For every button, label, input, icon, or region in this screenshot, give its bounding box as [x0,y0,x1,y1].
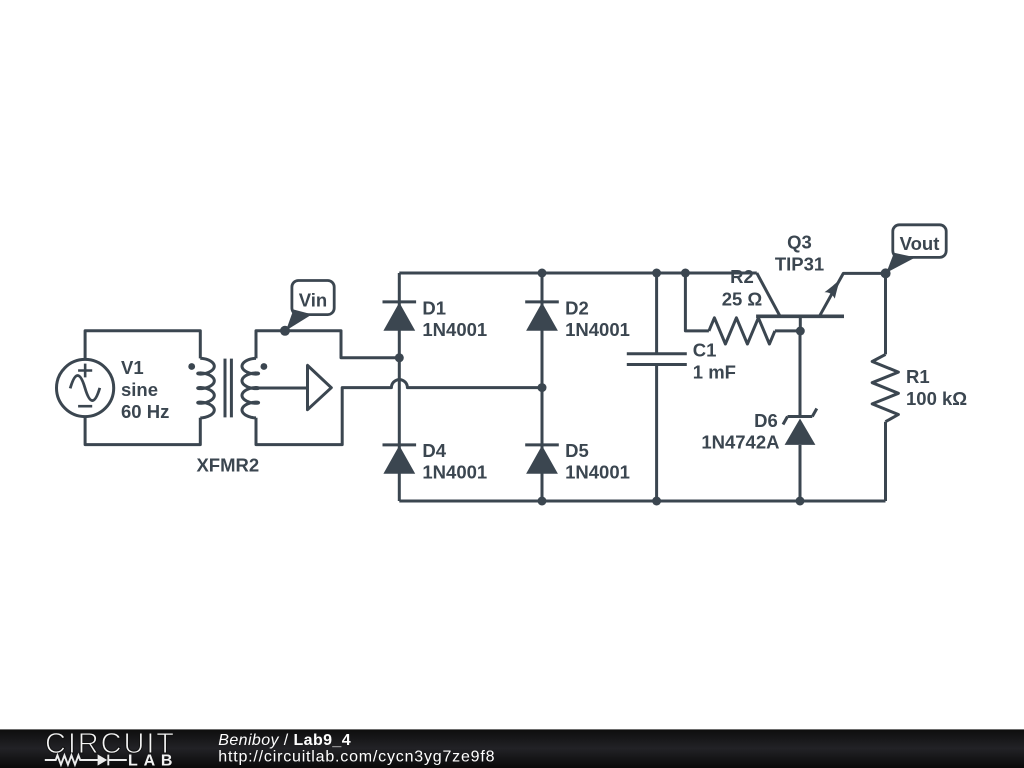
zener diode D6 [783,331,817,501]
svg-text:XFMR2: XFMR2 [196,455,259,476]
label D6 [701,410,779,452]
wire secondary bottom to bridge mid [256,380,542,445]
wire V1 top [85,331,200,360]
svg-text:sine: sine [121,379,158,400]
junction dot bottom D5 [538,497,547,506]
label R1 [906,366,967,409]
svg-text:D1: D1 [422,297,446,318]
label D4 [422,440,487,483]
wire bottom rail [399,500,885,503]
label Q3 [775,231,824,274]
wire center tap stub [258,387,308,390]
label D1 [422,297,487,340]
node Vin flag [280,281,334,336]
svg-text:100 kΩ: 100 kΩ [906,388,967,409]
junction dot D6 bottom [796,497,805,506]
CircuitLab logo symbol [45,755,127,766]
diode D1 [383,302,417,331]
svg-text:Q3: Q3 [787,231,812,252]
label C1 [693,340,736,383]
svg-text:1 mF: 1 mF [693,362,736,383]
svg-text:1N4742A: 1N4742A [701,431,779,452]
wire top rail [399,272,757,275]
transformer XFMR2 secondary phase dot [261,363,268,370]
svg-text:1N4001: 1N4001 [422,461,487,482]
transformer XFMR2 secondary winding [242,358,259,418]
svg-text:Vin: Vin [299,289,327,310]
svg-text:Beniboy / Lab9_4: Beniboy / Lab9_4 [218,732,351,749]
diode D5 [525,445,559,474]
voltage source V1 [57,359,114,416]
wire secondary top to bridge [256,331,399,359]
svg-text:60 Hz: 60 Hz [121,401,169,422]
diode D4 [383,445,417,474]
svg-text:V1: V1 [121,357,144,378]
svg-text:C1: C1 [693,340,717,361]
svg-text:TIP31: TIP31 [775,253,824,274]
svg-text:1N4001: 1N4001 [422,319,487,340]
junction dot C1 top [652,269,661,278]
svg-text:R1: R1 [906,366,930,387]
wire V1 bottom [85,417,200,445]
resistor R2 [685,273,800,344]
diode D2 [525,302,559,331]
footer bar [0,728,1024,768]
junction dot bridge top D2 [538,269,547,278]
junction dot secondary top [395,353,404,362]
transformer XFMR2 primary phase dot [188,363,195,370]
capacitor C1 [627,273,687,501]
svg-text:D6: D6 [754,410,778,431]
label V1 value [121,357,169,422]
svg-text:D2: D2 [565,297,589,318]
wire bridge left vertical [398,273,401,501]
junction dot bridge mid input [538,383,547,392]
label D5 [565,440,630,483]
svg-text:1N4001: 1N4001 [565,461,630,482]
svg-text:LAB: LAB [128,753,178,768]
label R2 [722,266,763,309]
svg-text:Vout: Vout [900,233,940,254]
node Vout flag [881,225,947,279]
junction dot C1 bottom [652,497,661,506]
svg-text:http://circuitlab.com/cycn3yg7: http://circuitlab.com/cycn3yg7ze9f8 [218,749,495,766]
transistor Q3 [756,273,886,331]
svg-text:R2: R2 [730,266,754,287]
svg-text:D4: D4 [422,440,446,461]
transformer XFMR2 core [225,359,231,418]
center tap triangle marker [308,365,332,409]
svg-text:25 Ω: 25 Ω [722,288,763,309]
label D2 [565,297,630,340]
transformer XFMR2 primary winding [198,358,215,418]
svg-text:D5: D5 [565,440,589,461]
junction dot Q3 base [796,327,805,336]
svg-text:1N4001: 1N4001 [565,319,630,340]
resistor R1 [872,273,898,501]
wire bridge mid vertical [541,273,544,501]
junction dot R2 branch [681,269,690,278]
